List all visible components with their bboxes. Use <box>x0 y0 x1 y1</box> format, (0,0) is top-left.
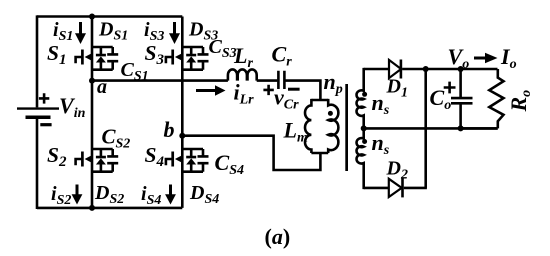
svg-text:b: b <box>164 117 175 142</box>
winding ns lower <box>357 128 364 189</box>
transistor S2 <box>76 149 113 172</box>
diode D2 <box>389 178 403 197</box>
node junction bottom left leg <box>89 205 95 211</box>
wire output bottom right <box>461 127 498 130</box>
wire right leg <box>181 17 184 208</box>
node junction top left leg <box>89 14 95 20</box>
minus sign Cr <box>288 88 300 91</box>
svg-text:a: a <box>97 76 107 98</box>
winding ns upper <box>357 68 364 128</box>
arrow iS3 <box>169 22 180 44</box>
arrow iS2 <box>72 185 83 205</box>
wire left leg <box>91 17 94 208</box>
wire primary loop bottom <box>311 152 328 155</box>
resistor Ro <box>489 69 503 128</box>
transformer core <box>345 84 348 171</box>
arrow iLr <box>196 85 226 95</box>
node Co top junction <box>458 66 464 72</box>
diode D1 <box>389 60 401 79</box>
winding np (primary loop right branch) <box>328 99 338 153</box>
diode DS1 <box>96 47 106 70</box>
wire Lr to Cr <box>257 79 278 82</box>
diode DS3 <box>186 47 196 70</box>
node a <box>89 78 95 84</box>
node Co bottom junction <box>458 125 464 131</box>
node ns lower polarity dot <box>362 139 367 144</box>
capacitor CS4 <box>198 149 209 172</box>
node center tap <box>361 125 367 131</box>
plus sign Cr <box>263 85 273 95</box>
capacitor Co <box>444 69 473 128</box>
wire secondary top to D1 <box>364 68 389 71</box>
arrow iS4 <box>165 185 176 205</box>
wire left source vertical bottom <box>36 119 39 209</box>
node D1 cathode junction <box>423 66 429 72</box>
diode DS2 <box>96 149 106 172</box>
wire node b to primary bottom <box>182 136 320 170</box>
transistor S4 <box>166 149 203 172</box>
capacitor CS3 <box>198 47 209 70</box>
wire bottom rail <box>37 207 182 210</box>
node b <box>179 133 185 139</box>
capacitor CS2 <box>107 149 118 172</box>
arrow Io <box>474 53 498 63</box>
wire Cr to primary corner <box>285 81 320 100</box>
inductor Lr <box>228 69 257 80</box>
diode DS4 <box>186 149 196 172</box>
battery Vin <box>17 93 59 125</box>
node ns upper polarity dot <box>362 92 367 97</box>
wire center tap rail <box>364 127 498 130</box>
wire rectifier bus vertical <box>424 69 427 188</box>
wire D2 to bus <box>404 187 427 190</box>
svg-text:(a): (a) <box>265 224 291 249</box>
wire top rail <box>37 15 182 18</box>
wire primary loop top <box>311 99 328 102</box>
transistor S1 <box>76 47 113 70</box>
wire D1 to output top <box>402 68 497 71</box>
capacitor Cr <box>278 71 284 89</box>
transistor S3 <box>166 47 203 70</box>
wire D2 line <box>364 187 389 190</box>
wire node a to Lr <box>92 79 228 82</box>
wire left source vertical top <box>36 15 39 107</box>
arrow iS1 <box>75 22 86 44</box>
capacitor CS1 <box>107 47 118 70</box>
inductor Lm (primary loop left branch) <box>305 99 311 153</box>
node np polarity dot <box>328 111 333 116</box>
